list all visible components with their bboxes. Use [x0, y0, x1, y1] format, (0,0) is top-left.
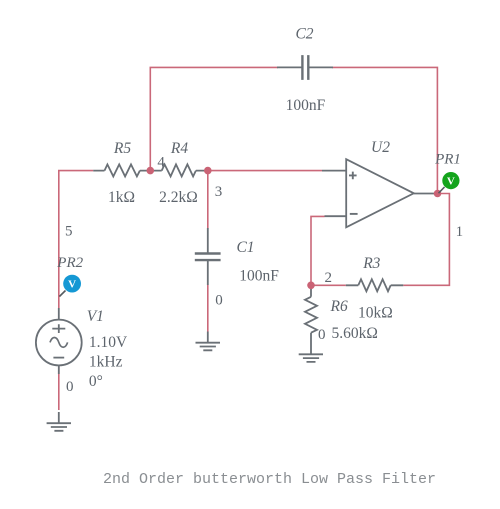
svg-text:5.60kΩ: 5.60kΩ: [331, 325, 377, 342]
voltage source V1: [36, 308, 82, 374]
resistor R4: [150, 164, 208, 176]
capacitor C2: [277, 55, 333, 80]
resistor R5: [93, 164, 150, 176]
ground (R6): [299, 354, 323, 362]
svg-text:3: 3: [215, 184, 223, 200]
ground (C1): [196, 332, 221, 351]
svg-text:R6: R6: [329, 298, 347, 315]
wire V1 bottom to ground: [58, 365, 60, 410]
svg-text:C1: C1: [236, 239, 254, 256]
svg-text:10kΩ: 10kΩ: [358, 304, 393, 321]
wire C1 bottom to ground: [207, 285, 209, 332]
wire opamp minus input branch: [311, 216, 325, 285]
svg-text:0: 0: [215, 293, 223, 309]
svg-text:R4: R4: [170, 140, 188, 157]
svg-text:R3: R3: [362, 255, 380, 272]
svg-text:1.10V: 1.10V: [89, 334, 128, 351]
svg-text:PR1: PR1: [434, 152, 461, 168]
svg-text:PR2: PR2: [56, 255, 83, 271]
wire node3 to opamp plus input: [208, 170, 322, 172]
svg-text:1kΩ: 1kΩ: [108, 189, 135, 206]
svg-text:V1: V1: [87, 308, 104, 325]
capacitor C1 (vertical): [195, 228, 221, 285]
resistor R6 (vertical): [305, 285, 317, 354]
svg-text:5: 5: [65, 224, 73, 240]
wire V1 to R5 left: [59, 171, 93, 308]
svg-text:0: 0: [66, 379, 74, 395]
svg-text:1: 1: [456, 224, 464, 240]
svg-text:V: V: [447, 175, 455, 187]
probe PR2: [59, 275, 81, 297]
svg-text:100nF: 100nF: [239, 267, 279, 284]
svg-text:1kHz: 1kHz: [89, 354, 123, 371]
wire node2 to R3 left: [311, 284, 346, 286]
ground (V1): [47, 412, 71, 431]
svg-text:0: 0: [318, 327, 326, 343]
svg-text:100nF: 100nF: [286, 97, 326, 114]
svg-text:4: 4: [157, 154, 165, 170]
svg-text:V: V: [68, 278, 76, 290]
node 4 junction dot: [147, 167, 155, 175]
node 2 junction dot: [307, 282, 315, 290]
svg-text:U2: U2: [371, 139, 390, 156]
svg-text:0°: 0°: [89, 373, 103, 390]
svg-text:2.2kΩ: 2.2kΩ: [159, 189, 198, 206]
wire output to R3 right: [403, 194, 449, 286]
svg-text:2nd Order butterworth Low Pass: 2nd Order butterworth Low Pass Filter: [103, 471, 436, 488]
op-amp U2: [322, 159, 438, 227]
probe PR1: [439, 172, 460, 193]
svg-text:R5: R5: [113, 140, 131, 157]
wire net4-C2-out top loop: [150, 67, 437, 193]
node 3 junction dot: [204, 167, 212, 175]
svg-text:C2: C2: [295, 25, 313, 42]
output node dot: [434, 190, 442, 198]
svg-text:2: 2: [324, 270, 332, 286]
wire node3 down to C1: [207, 171, 209, 229]
resistor R3: [346, 279, 404, 291]
